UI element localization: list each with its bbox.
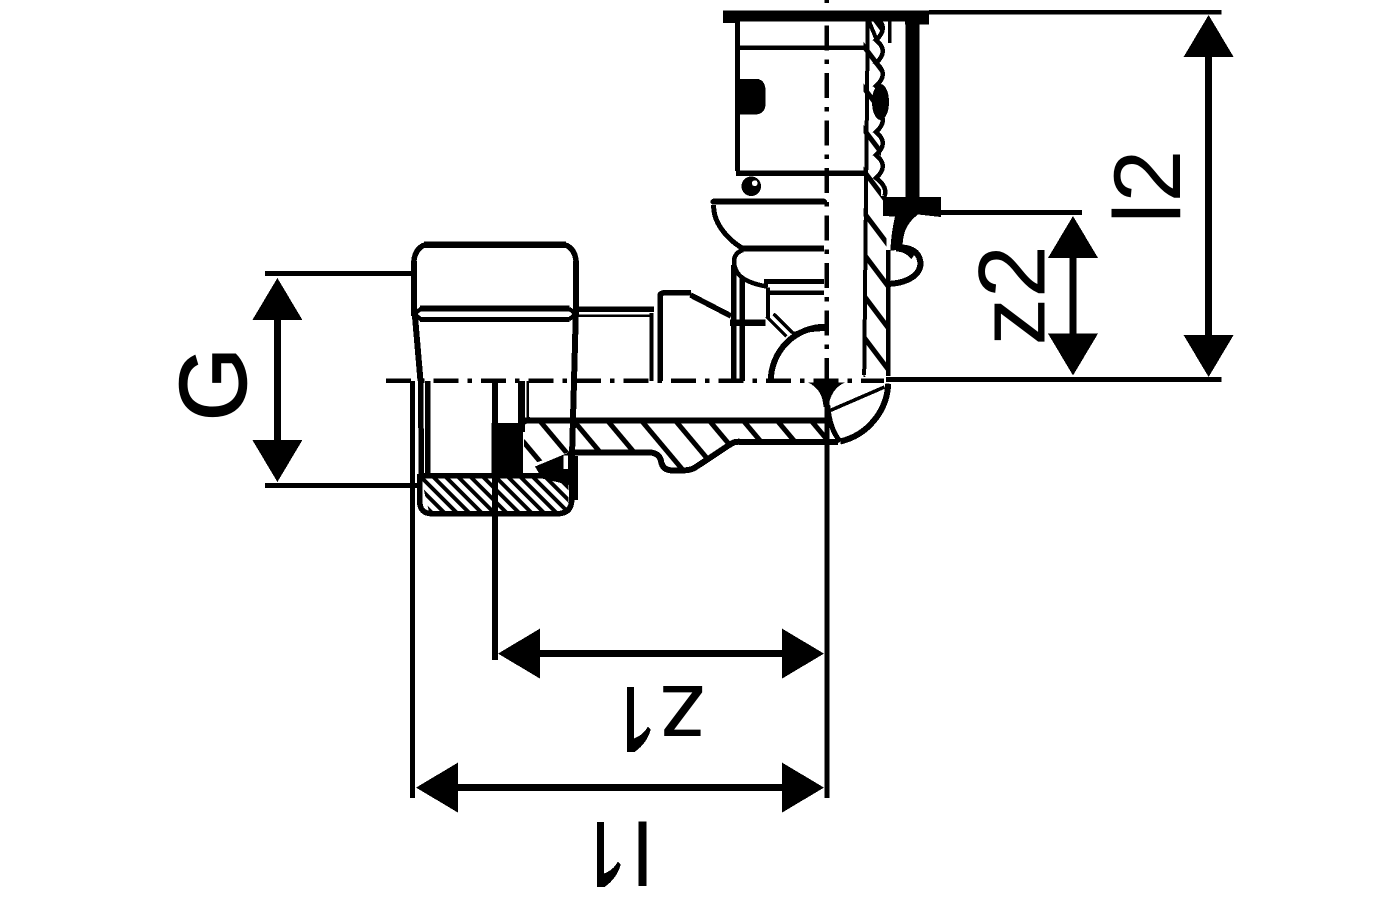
dimension l1 line (457, 784, 783, 791)
dimension G arrow down (252, 440, 302, 482)
nut right edge (573, 261, 579, 316)
dimension l2 arrow down (1184, 335, 1234, 377)
svg-text:l2: l2 (1095, 150, 1201, 224)
sleeve left wall (735, 21, 740, 171)
tube stop line (737, 45, 866, 50)
seam diagonal upper (774, 314, 794, 333)
dimension G ext bottom (265, 483, 418, 488)
dimension l1 ext left (410, 381, 415, 798)
dimension z1 line (539, 650, 783, 657)
bead outline (734, 250, 768, 287)
right band hatch (864, 17, 887, 377)
sleeve rim vertical (766, 288, 770, 318)
bell bottom line (741, 246, 824, 252)
dimension z2 ext top (934, 210, 1082, 215)
tailpiece pipe thin line (573, 315, 651, 318)
elbow corner outer arc (840, 384, 888, 442)
dimension l2 ext top (929, 10, 1222, 15)
svg-text:z2: z2 (960, 245, 1066, 345)
sleeve inner top edge (888, 21, 892, 43)
nut flange hatch (421, 476, 569, 512)
sleeve end line upper (764, 279, 824, 284)
band right boundary (886, 250, 891, 376)
nut left edge lower taper (415, 314, 421, 381)
nut chamfer left (414, 245, 425, 263)
collar cone (691, 295, 732, 316)
nut facet convergence left (415, 309, 421, 320)
vertical centerline (824, 0, 829, 390)
sleeve inner stop line (736, 171, 866, 177)
dimension z2 arrow up (1048, 216, 1098, 258)
dimension z2 line (1070, 258, 1077, 334)
nut section thread inner wall left (425, 381, 431, 474)
label l1 letter l (639, 821, 647, 886)
nut bore edge right (492, 381, 498, 474)
press claw black (883, 197, 941, 248)
elbow inner arc (792, 329, 825, 335)
run bottom profile (571, 442, 838, 471)
tailpiece pipe line (573, 306, 654, 312)
bell top line (714, 199, 825, 205)
grip ring cone (866, 14, 876, 39)
horizontal centerline (386, 378, 884, 383)
elbow inlet wall A (731, 265, 737, 381)
elbow outer bend arc (771, 327, 825, 381)
grip ring filled teeth (872, 84, 889, 120)
nut flange top edge (420, 473, 567, 479)
nut thread slot white (563, 456, 568, 470)
collar left edge line (649, 313, 653, 381)
nut left edge (411, 261, 417, 316)
svg-text:G: G (160, 347, 266, 421)
tailpiece shank line (518, 381, 525, 432)
nut right edge lower taper (572, 314, 576, 456)
sleeve outer wall right (905, 21, 919, 201)
dimension z1 ext left (492, 382, 498, 660)
collar front face (657, 296, 663, 382)
bead section outline right (891, 247, 921, 284)
seal wedge black blob (535, 452, 574, 486)
sleeve end line lower (768, 290, 825, 295)
elbow socket bar (730, 319, 766, 326)
dimension G ext top (265, 271, 414, 276)
bell curve (714, 205, 744, 249)
seam diagonal lower (767, 317, 787, 337)
dimension G line (274, 318, 281, 442)
dimension l2 line (1205, 57, 1212, 335)
label l1 digit 1 (597, 822, 604, 887)
nut facet line upper (420, 306, 570, 312)
nut section outer wall left (421, 381, 422, 474)
elbow corner fillet fill (808, 383, 845, 408)
union nut top edge (424, 241, 566, 248)
dimension G arrow up (252, 278, 302, 320)
band left boundary (864, 17, 868, 375)
dimension l2 arrow up (1184, 15, 1234, 57)
dimension l1 arrow left (416, 763, 458, 813)
collar top (660, 293, 691, 296)
nut flange right bar (569, 456, 578, 500)
dimension z1/l1 ext right (825, 397, 830, 798)
nut flange outline (420, 457, 574, 514)
label z1 digit 1 (627, 687, 634, 752)
run hatch band (523, 423, 826, 470)
o-ring section (742, 177, 762, 197)
dimension l2/z2 ext bottom (886, 377, 1222, 382)
dimension z1 arrow right (782, 629, 824, 679)
elbow corner inner edge (828, 405, 841, 442)
nut chamfer right (566, 245, 577, 263)
dimension z1 arrow left (498, 629, 540, 679)
tailpiece chamfer (522, 419, 532, 425)
seal ring black (492, 423, 524, 473)
nut facet convergence right (569, 309, 576, 320)
svg-text:z: z (659, 665, 707, 771)
elbow corner hatch diagonal (829, 387, 885, 411)
tailpiece shank thin line (527, 381, 530, 420)
dimension z2 arrow down (1048, 334, 1098, 376)
dimension l1 arrow right (782, 763, 824, 813)
nut facet line lower (420, 317, 570, 322)
sleeve indicator bump (739, 79, 766, 115)
run bore wall line (524, 418, 826, 424)
elbow inlet wall B (739, 278, 745, 381)
grip ring wavy profile (876, 17, 885, 196)
sleeve top cap bar (723, 10, 929, 21)
